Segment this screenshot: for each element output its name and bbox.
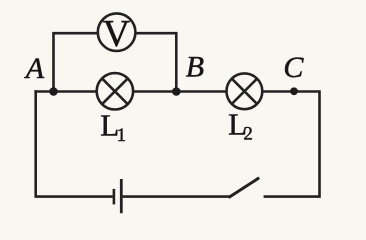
wire: main horizontal A to lamp L1 (34, 90, 96, 93)
wire: left vertical and bottom run to battery (36, 90, 113, 196)
svg-text:V: V (103, 13, 131, 55)
battery B1 long plate (positive) (120, 179, 123, 213)
svg-text:1: 1 (117, 125, 127, 146)
wire: top rail from voltmeter down riser to node B (136, 33, 176, 91)
lamp L1 (97, 73, 133, 109)
switch S1 open arm (229, 178, 260, 198)
wire: main horizontal lamp L2 to right corner through node C (263, 90, 320, 93)
svg-text:2: 2 (243, 123, 253, 144)
lamp L2 (227, 73, 263, 109)
wire: battery to switch (123, 195, 230, 198)
battery B1 short plate (negative) (113, 189, 116, 205)
wire: riser from node A up and top rail to voltmeter (54, 33, 98, 91)
svg-text:C: C (283, 51, 304, 84)
node C junction dot (290, 87, 298, 95)
wire: switch contact to right corner (264, 90, 320, 196)
svg-text:B: B (186, 51, 204, 84)
svg-text:A: A (24, 52, 45, 85)
node A junction dot (49, 87, 58, 96)
voltmeter U1 (98, 13, 136, 55)
node B junction dot (172, 87, 181, 96)
wire: main horizontal lamp L1 to lamp L2 through node B (134, 90, 227, 93)
